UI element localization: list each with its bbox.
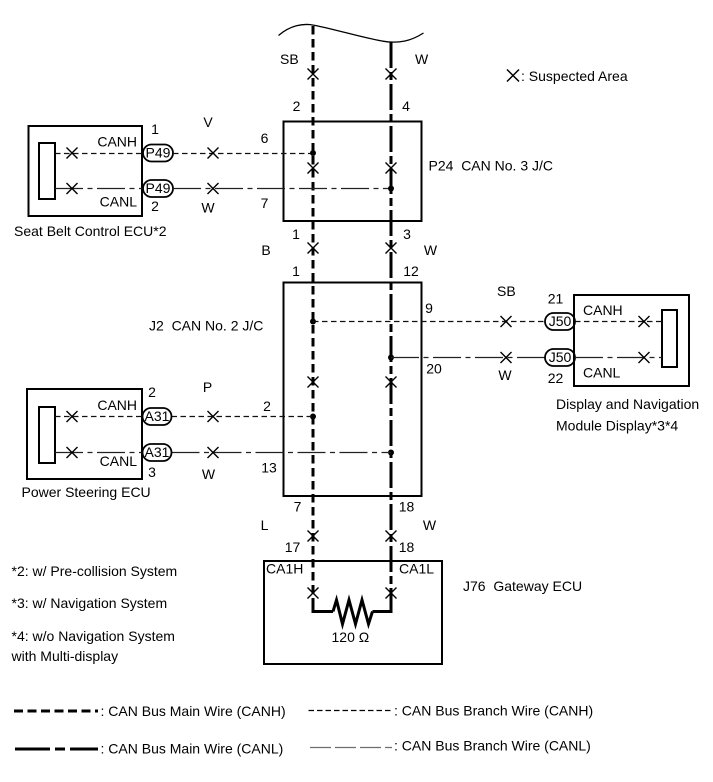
svg-text:21: 21: [548, 291, 564, 307]
connector oval A31 CANL: [143, 444, 172, 461]
connector bar inside power steering ECU: [39, 407, 55, 463]
wire CANH main corner into gateway: [313, 598, 333, 612]
svg-text:18: 18: [399, 499, 415, 515]
svg-text:W: W: [201, 200, 215, 216]
ECU box Seat Belt Control: [29, 126, 143, 216]
wire CANL branch inside seat belt ECU: [55, 188, 143, 190]
ECU box Display and Navigation Module: [574, 295, 689, 386]
suspected area mark P24 right vertical: [386, 163, 397, 174]
suspected area mark between P24 and J2 left: [308, 243, 319, 254]
wire CANL branch inside power steering: [55, 452, 143, 454]
wire CANH branch inside seat belt ECU: [55, 153, 143, 155]
svg-text:3: 3: [403, 226, 411, 242]
svg-text:6: 6: [261, 130, 269, 146]
wire CANL main corner into gateway: [373, 598, 392, 612]
wire CANL branch P49 to P24: [173, 188, 391, 190]
svg-text:A31: A31: [145, 444, 170, 460]
connector oval P49 CANH: [143, 145, 173, 162]
svg-text:CANL: CANL: [100, 194, 138, 210]
svg-text:CANL: CANL: [100, 453, 138, 469]
suspected area mark A31 CANL branch: [208, 447, 219, 458]
suspected area mark seat belt CANH: [67, 148, 78, 159]
resistor 120 ohm zigzag: [333, 600, 373, 624]
svg-text:2: 2: [148, 384, 156, 400]
suspected area mark J2 right vertical: [386, 377, 397, 388]
svg-text:4: 4: [402, 98, 410, 114]
svg-text:W: W: [423, 517, 437, 533]
suspected area mark J50 CANL branch: [501, 352, 512, 363]
suspected area mark power steering CANH: [67, 411, 78, 422]
suspected area mark seat belt CANL: [67, 183, 78, 194]
suspected area mark top CANH: [308, 69, 319, 80]
svg-text:9: 9: [425, 300, 433, 316]
suspected area mark A31 CANH branch: [208, 411, 219, 422]
wire CANL branch J2 to A31: [172, 452, 392, 454]
suspected area mark below J2 right: [386, 531, 397, 542]
suspected area mark J2 left vertical: [308, 377, 319, 388]
ECU box Power Steering: [27, 389, 142, 479]
junction block J2 CAN No. 2 J/C box: [284, 283, 422, 497]
svg-text:P49: P49: [146, 145, 171, 161]
svg-text:A31: A31: [145, 408, 170, 424]
connector bar inside display: [662, 310, 677, 367]
svg-text:2: 2: [263, 398, 271, 414]
svg-text:3: 3: [148, 464, 156, 480]
svg-text:22: 22: [548, 370, 564, 386]
svg-text:W: W: [498, 367, 512, 383]
junction dot P24 CANH: [310, 150, 316, 156]
svg-text:CANH: CANH: [97, 134, 137, 150]
suspected area mark power steering CANL: [67, 447, 78, 458]
svg-text:CANH: CANH: [97, 397, 137, 413]
svg-text:: CAN Bus Main Wire (CANL): : CAN Bus Main Wire (CANL): [101, 741, 284, 757]
legend CAN bus main wire CANH sample: [14, 710, 98, 713]
svg-text:W: W: [424, 242, 438, 258]
svg-text:P49: P49: [146, 180, 171, 196]
junction dot J2 CANL to A31: [388, 450, 394, 456]
suspected area mark J50 CANH branch: [501, 316, 512, 327]
legend CAN bus main wire CANL sample: [15, 748, 98, 751]
wire CANH branch J2 to J50: [313, 321, 545, 323]
junction dot J2 CANL to J50: [388, 355, 394, 361]
svg-text:: CAN Bus Branch Wire (CANH): : CAN Bus Branch Wire (CANH): [394, 703, 593, 719]
wire CANH branch inside power steering: [55, 416, 143, 418]
wire CANH branch inside display: [575, 321, 662, 323]
svg-text:: CAN Bus Branch Wire (CANL): : CAN Bus Branch Wire (CANL): [394, 738, 591, 754]
svg-text:CANH: CANH: [583, 302, 623, 318]
connector oval P49 CANL: [143, 180, 173, 197]
legend CAN bus branch wire CANL sample: [310, 747, 392, 749]
svg-text:2: 2: [151, 198, 159, 214]
svg-text:2: 2: [293, 98, 301, 114]
junction dot P24 CANL: [388, 186, 394, 192]
wire CANH branch P49 to P24: [173, 153, 313, 155]
junction dot J2 CANH to J50: [310, 319, 316, 325]
svg-text:V: V: [203, 114, 213, 130]
wire break wavy line: [279, 24, 424, 42]
svg-text:20: 20: [426, 361, 442, 377]
svg-text:1: 1: [151, 121, 159, 137]
connector oval A31 CANH: [143, 408, 172, 425]
wire CANH branch J2 to A31: [172, 416, 314, 418]
svg-text:L: L: [261, 517, 269, 533]
wire CANL main vertical (W): [390, 42, 393, 600]
svg-text:*3: w/ Navigation System: *3: w/ Navigation System: [12, 595, 168, 611]
ECU box J76 Gateway: [264, 561, 442, 664]
suspected area mark CANL branch: [208, 183, 219, 194]
svg-text:J50: J50: [549, 349, 572, 365]
svg-text:*2: w/ Pre-collision System: *2: w/ Pre-collision System: [12, 563, 178, 579]
svg-text:Module Display*3*4: Module Display*3*4: [556, 418, 678, 434]
svg-text:B: B: [261, 242, 270, 258]
svg-text:7: 7: [294, 499, 302, 515]
svg-text:J2 CAN No. 2 J/C: J2 CAN No. 2 J/C: [149, 318, 263, 334]
svg-text:Power Steering ECU: Power Steering ECU: [22, 484, 151, 500]
legend suspected area X: [507, 70, 519, 82]
svg-text:CANL: CANL: [583, 365, 621, 381]
svg-text:13: 13: [261, 460, 277, 476]
svg-text:CA1H: CA1H: [266, 561, 303, 577]
svg-text:17: 17: [285, 539, 301, 555]
svg-text:P: P: [203, 379, 212, 395]
svg-text:120 Ω: 120 Ω: [332, 629, 370, 645]
suspected area mark display CANH: [639, 316, 650, 327]
svg-text:J76 Gateway ECU: J76 Gateway ECU: [463, 578, 582, 594]
legend CAN bus branch wire CANH sample: [309, 710, 394, 712]
svg-text:18: 18: [399, 539, 415, 555]
suspected area mark P24 left vertical: [308, 163, 319, 174]
connector oval J50 CANH: [545, 313, 575, 330]
connector bar inside Seat Belt ECU: [39, 143, 55, 199]
svg-text:SB: SB: [280, 51, 299, 67]
junction dot J2 CANH to A31: [310, 414, 316, 420]
suspected area mark top CANL: [386, 69, 397, 80]
svg-text:with Multi-display: with Multi-display: [11, 648, 119, 664]
svg-text:P24 CAN No. 3 J/C: P24 CAN No. 3 J/C: [429, 158, 554, 174]
wire CANL branch inside display: [575, 357, 662, 359]
svg-text:1: 1: [292, 226, 300, 242]
svg-text:CA1L: CA1L: [399, 561, 434, 577]
connector oval J50 CANL: [545, 349, 575, 366]
svg-text:7: 7: [261, 195, 269, 211]
svg-text:W: W: [202, 466, 216, 482]
wire CANH main vertical (SB): [312, 26, 315, 600]
suspected area mark CANH branch: [208, 148, 219, 159]
svg-text:Display and Navigation: Display and Navigation: [556, 396, 699, 412]
svg-text:J50: J50: [549, 313, 572, 329]
suspected area mark gateway right: [386, 588, 397, 599]
svg-text:W: W: [415, 51, 429, 67]
svg-text:: CAN Bus Main Wire (CANH): : CAN Bus Main Wire (CANH): [101, 703, 286, 719]
suspected area mark below J2 left: [308, 531, 319, 542]
svg-text:*4: w/o Navigation System: *4: w/o Navigation System: [12, 628, 175, 644]
svg-text:1: 1: [292, 263, 300, 279]
svg-text:12: 12: [403, 263, 419, 279]
suspected area mark gateway left: [308, 588, 319, 599]
svg-text:: Suspected Area: : Suspected Area: [521, 68, 628, 84]
svg-text:Seat Belt Control ECU*2: Seat Belt Control ECU*2: [14, 223, 167, 239]
svg-text:SB: SB: [497, 283, 516, 299]
suspected area mark between P24 and J2 right: [386, 243, 397, 254]
suspected area mark display CANL: [639, 352, 650, 363]
wire CANL branch J2 to J50: [391, 357, 545, 359]
junction block P24 CAN No. 3 J/C box: [284, 122, 422, 222]
